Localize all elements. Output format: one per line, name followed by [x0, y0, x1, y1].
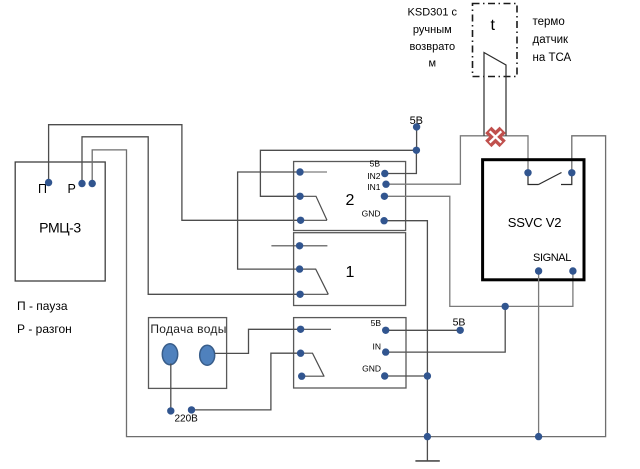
wire valve 5В pin to 5В stub [386, 329, 461, 331]
wire П to optocoupler 2 bottom-left pin [49, 125, 300, 221]
svg-text:РМЦ-3: РМЦ-3 [39, 220, 81, 236]
thermostat switch element [484, 53, 506, 136]
relay contact symbol inside SSVC [528, 173, 572, 185]
svg-text:м: м [429, 58, 437, 70]
svg-text:датчик: датчик [533, 34, 570, 46]
wire IN1 branch to water box IN pin [386, 306, 506, 352]
svg-text:Р - разгон: Р - разгон [17, 322, 72, 336]
svg-text:220В: 220В [175, 414, 199, 425]
svg-text:ручным: ручным [413, 24, 452, 36]
node ch1 bottom-left pin [296, 291, 303, 298]
svg-text:Р: Р [68, 182, 76, 196]
node valve middle-left pin [297, 350, 304, 357]
wire Р1 to optocoupler 1 bottom-left pin [82, 137, 300, 294]
node SIGNAL bottom rail junction [535, 433, 542, 440]
label термо датчик на ТСА [533, 16, 572, 64]
controller box РМЦ-3 [15, 162, 105, 281]
node ch2 IN2 pin [382, 181, 389, 188]
wire left pump contact down to 220В terminal [170, 364, 172, 411]
node 5В top terminal [413, 123, 420, 130]
svg-text:П - пауза: П - пауза [17, 299, 68, 313]
node 5В right stub terminal [457, 327, 464, 334]
node valve top-left pin [297, 326, 304, 333]
wire valve middle-left pin to 220В terminal [192, 353, 301, 410]
node valve IN pin [382, 348, 389, 355]
svg-text:SIGNAL: SIGNAL [533, 252, 571, 264]
svg-text:IN: IN [373, 342, 382, 352]
svg-text:возврато: возврато [409, 41, 455, 53]
node IN1/SIGNAL junction [502, 303, 509, 310]
node valve bottom-left pin [298, 373, 305, 380]
svg-text:2: 2 [346, 192, 355, 209]
water supply box Подача воды [149, 318, 227, 389]
svg-text:Подача воды: Подача воды [150, 322, 226, 336]
node Р terminal 2 [89, 180, 96, 187]
wire 5V net [260, 127, 416, 196]
ground [415, 460, 439, 462]
node ch1 middle-left pin [296, 265, 303, 272]
node ch2 bottom-left pin [297, 217, 304, 224]
svg-text:1: 1 [346, 264, 355, 281]
wire IN1 to SIGNAL right pin [384, 196, 573, 306]
node Р terminal 1 [78, 180, 85, 187]
svg-text:IN2: IN2 [367, 171, 381, 181]
wire valve GND pin to GND vertical [385, 375, 428, 377]
svg-text:на ТСА: на ТСА [533, 52, 572, 64]
svg-text:GND: GND [362, 209, 381, 219]
svg-text:IN1: IN1 [367, 182, 381, 192]
node SIGNAL right pin [569, 267, 576, 274]
svg-text:термо: термо [533, 16, 565, 28]
node GND/valve junction [424, 372, 431, 379]
node GND bottom rail junction [424, 433, 431, 440]
node ch1 top-left pin [296, 242, 303, 249]
svg-text:5В: 5В [453, 317, 466, 329]
svg-text:SSVC V2: SSVC V2 [508, 215, 562, 230]
svg-text:t: t [491, 17, 496, 34]
label KSD301 с ручным возвратом [408, 7, 458, 70]
SSVC V2 box [483, 160, 584, 280]
node ch2 IN1 pin [381, 193, 388, 200]
node valve 5В pin [382, 327, 389, 334]
wire GND main vertical [384, 221, 427, 461]
svg-text:KSD301 с: KSD301 с [408, 7, 458, 19]
node 220В terminal 1 [167, 407, 174, 414]
wire IN2 to thermostat and relay left contact [386, 136, 528, 184]
switch symbol inside valve driver box [301, 329, 331, 376]
optocoupler channel 2 box [294, 162, 406, 231]
KSD301 thermostat box [473, 4, 518, 77]
node ch2 5В pin [381, 170, 388, 177]
node SIGNAL left pin [535, 267, 542, 274]
wire SIGNAL left pin to bottom rail [538, 271, 540, 437]
wire channel2 top-left pin to channel1 middle-left pin [238, 172, 300, 269]
optocoupler channel 1 box [294, 233, 406, 306]
pump contact right (ellipse) [200, 345, 215, 365]
node valve GND pin [381, 372, 388, 379]
node 5V junction [413, 147, 420, 154]
node П terminal [45, 179, 52, 186]
wire right pump contact to valve box top-left pin [215, 329, 301, 353]
node relay left contact [524, 169, 531, 176]
node ch2 GND pin [380, 217, 387, 224]
switch symbol inside channel 1 [271, 246, 328, 294]
switch symbol inside channel 2 [300, 172, 327, 220]
pump contact left (ellipse) [162, 344, 177, 365]
svg-text:GND: GND [362, 364, 381, 374]
wire Р2 around bottom to SSVC relay right contact [92, 136, 605, 437]
node ch2 top-left pin [296, 168, 303, 175]
node ch2 middle-left pin [296, 193, 303, 200]
node relay right contact [568, 169, 575, 176]
svg-text:5В: 5В [371, 318, 382, 328]
svg-text:5В: 5В [370, 159, 381, 169]
red X broken-wire marker [488, 130, 502, 144]
node 220В terminal 2 [188, 406, 195, 413]
valve driver box (bottom) [294, 318, 406, 388]
